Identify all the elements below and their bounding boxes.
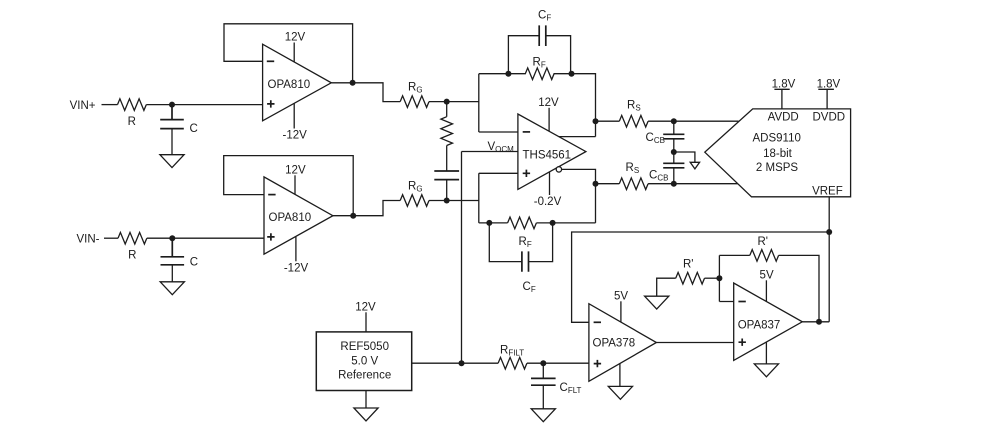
svg-text:RF: RF	[533, 57, 546, 70]
resistor RS (lower)	[619, 178, 648, 190]
svg-text:RS: RS	[626, 162, 640, 175]
resistor R (upper)	[118, 99, 147, 111]
svg-text:VIN+: VIN+	[70, 100, 96, 112]
supply stub -12V (upper OPA810)	[293, 103, 295, 128]
svg-text:5V: 5V	[614, 290, 628, 302]
wire feedback top rail	[719, 254, 749, 256]
node CF right (lower)	[550, 220, 556, 226]
IC ADS9110 body	[705, 109, 851, 197]
wire output step up to RG (lower)	[333, 201, 400, 216]
node output (lower OPA810)	[350, 213, 356, 219]
node output (upper OPA810)	[350, 80, 356, 86]
supply stub -12V (lower OPA810)	[295, 237, 297, 262]
node CCB middle	[671, 149, 677, 155]
supply stub 12V (lower OPA810)	[294, 175, 296, 194]
resistor RS (upper)	[619, 115, 648, 127]
pin minus (upper OPA810)	[267, 60, 274, 62]
wire feedback loop (upper OPA810)	[224, 24, 353, 83]
svg-text:CCB: CCB	[649, 170, 668, 183]
supply stub -0.2V (THS4561)	[549, 172, 551, 195]
wire CCB node to ADC AINP	[674, 120, 739, 122]
supply stub 12V (REF5050)	[365, 312, 367, 332]
wire CCB middle to ground	[674, 152, 695, 162]
ground (OPA378)	[608, 386, 632, 399]
svg-text:RG: RG	[408, 181, 423, 194]
node CCB bottom	[671, 181, 677, 187]
svg-text:R': R'	[683, 259, 694, 271]
svg-text:OPA810: OPA810	[269, 212, 312, 224]
wire OPA837 ground	[765, 342, 767, 364]
ground (lower input C)	[160, 282, 184, 295]
wire OPA378 output to OPA837 +	[656, 342, 733, 344]
pin minus (OPA378)	[594, 321, 601, 323]
svg-text:ADS9110: ADS9110	[753, 132, 801, 144]
resistor RT (vertical between RG nodes)	[441, 117, 453, 146]
svg-text:18-bit: 18-bit	[763, 148, 793, 160]
svg-text:RS: RS	[627, 100, 641, 113]
svg-text:-12V: -12V	[283, 130, 308, 142]
wire VIN- to R	[104, 237, 118, 239]
supply stub 5V (OPA837)	[765, 280, 767, 301]
capacitor CCB (lower)	[663, 152, 684, 184]
capacitor CF (upper) loop	[508, 25, 570, 73]
resistor R (lower)	[118, 232, 147, 244]
ground (CCB midpoint, small)	[690, 162, 699, 169]
svg-text:C: C	[190, 257, 198, 269]
svg-text:CFLT: CFLT	[560, 382, 582, 395]
svg-text:RF: RF	[519, 236, 532, 249]
supply stub DVDD	[818, 89, 834, 109]
wire bottom feedback rail	[479, 222, 596, 224]
capacitor C (upper)	[160, 105, 184, 155]
svg-text:1.8V: 1.8V	[772, 78, 796, 90]
resistor RF (upper)	[508, 68, 571, 80]
wire output plus (upper, from slope)	[559, 136, 596, 138]
capacitor CF (lower) loop	[489, 223, 552, 272]
pin minus (OPA837)	[738, 301, 745, 303]
resistor R prime (divider)	[676, 272, 705, 284]
svg-text:12V: 12V	[538, 97, 559, 109]
ground (REF5050)	[354, 408, 378, 421]
wire to RS (upper)	[596, 120, 620, 122]
node VIN+ RC junction	[169, 102, 175, 108]
wire RS to CCB node (upper)	[648, 120, 674, 122]
pin plus (OPA378)	[594, 360, 601, 367]
wire RG to summing node (upper)	[429, 101, 479, 103]
wire minus node vertical	[719, 255, 733, 301]
wire junction to termination resistor	[446, 102, 448, 117]
svg-text:OPA810: OPA810	[268, 79, 311, 91]
capacitor C (lower)	[161, 238, 185, 282]
wire resistor to capacitor (mid chain)	[446, 146, 448, 172]
op-amp U4 OPA378 body	[589, 304, 657, 382]
wire OPA837 output to VREF	[802, 321, 829, 323]
resistor RFILT	[498, 357, 527, 369]
node RF left (upper)	[505, 71, 511, 77]
wire REF5050 output to RFILT	[412, 362, 498, 364]
capacitor CFLT	[531, 363, 556, 409]
wire left R prime to ground	[657, 278, 676, 296]
wire R to lower OPA810 + input	[147, 237, 264, 239]
node VOCM tap	[459, 360, 465, 366]
wire RFILT to OPA378 +	[527, 362, 589, 364]
node OPA837 minus branch	[716, 275, 722, 281]
svg-text:R': R'	[758, 236, 769, 248]
wire feedback to output	[779, 255, 819, 321]
wire CCB node to ADC AINM	[674, 183, 738, 185]
wire R to OPA810 + input	[146, 104, 262, 106]
wire VOCM vertical down to reference	[461, 152, 463, 364]
wire non-inverting network left vertical	[479, 173, 518, 223]
svg-text:12V: 12V	[285, 164, 306, 176]
svg-text:5.0 V: 5.0 V	[351, 355, 378, 367]
svg-text:CF: CF	[538, 10, 551, 23]
svg-text:12V: 12V	[285, 32, 306, 44]
resistor RF (lower)	[508, 217, 537, 229]
supply stub AVDD	[774, 89, 789, 109]
svg-text:-12V: -12V	[284, 262, 309, 274]
op-amp U5 OPA837 body	[734, 283, 803, 360]
svg-text:VIN-: VIN-	[77, 234, 100, 246]
svg-text:1.8V: 1.8V	[817, 78, 841, 90]
svg-text:VREF: VREF	[812, 185, 843, 197]
pin minus (THS4561)	[523, 131, 530, 133]
svg-text:OPA378: OPA378	[593, 337, 636, 349]
supply stub 5V (OPA378)	[620, 301, 622, 322]
wire R prime to minus node	[705, 277, 720, 279]
op-amp U3 THS4561 body	[518, 114, 586, 189]
node VIN- RC junction	[169, 235, 175, 241]
node output plus branch	[593, 118, 599, 124]
ground (CFLT)	[531, 409, 555, 422]
ground (OPA837)	[754, 364, 778, 377]
resistor R prime (feedback)	[750, 250, 779, 262]
svg-text:CCB: CCB	[646, 132, 665, 145]
capacitor CCB (upper)	[663, 121, 684, 152]
node OPA837 output	[816, 319, 822, 325]
wire OPA378 ground	[619, 364, 621, 387]
svg-text:R: R	[128, 116, 136, 128]
op-amp U2 OPA810 (lower) body	[264, 177, 333, 254]
node CFLT junction	[540, 360, 546, 366]
supply stub 12V (THS4561)	[548, 108, 550, 132]
wire inverting input network left vertical	[479, 74, 518, 132]
node output minus branch	[593, 181, 599, 187]
svg-text:Reference: Reference	[338, 370, 391, 382]
svg-text:REF5050: REF5050	[340, 341, 389, 353]
svg-text:OPA837: OPA837	[738, 319, 781, 331]
capacitor CT (vertical between RG nodes)	[434, 171, 459, 201]
svg-text:THS4561: THS4561	[523, 150, 572, 162]
svg-text:-0.2V: -0.2V	[534, 196, 562, 208]
node CF left (lower)	[486, 220, 492, 226]
supply stub 12V (upper OPA810)	[293, 43, 295, 63]
node RF right (upper)	[569, 71, 575, 77]
wire VIN+ to R	[102, 104, 118, 106]
wire output step down to RG (upper)	[331, 83, 400, 102]
svg-text:5V: 5V	[760, 269, 774, 281]
node RG junction (upper)	[444, 99, 450, 105]
ground (upper input C)	[160, 155, 184, 168]
wire feedback loop (lower OPA810)	[224, 156, 354, 216]
svg-text:RG: RG	[408, 82, 423, 95]
pin minus (lower OPA810)	[268, 194, 275, 196]
pin inverted output bubble	[556, 167, 561, 172]
op-amp U1 OPA810 (upper) body	[263, 44, 332, 121]
svg-text:DVDD: DVDD	[813, 112, 846, 124]
resistor RG (lower)	[400, 195, 429, 207]
IC REF5050 body	[316, 332, 411, 391]
wire REF5050 ground	[365, 391, 367, 409]
wire output minus to vertical	[562, 169, 596, 223]
wire VREF feedback to OPA378	[572, 232, 830, 322]
resistor RG (upper)	[400, 96, 429, 108]
wire to RS (lower)	[596, 183, 620, 185]
pin plus (THS4561)	[523, 170, 530, 177]
svg-text:CF: CF	[523, 281, 536, 294]
svg-text:R: R	[128, 250, 136, 262]
svg-text:C: C	[190, 123, 198, 135]
node RG junction (lower)	[444, 198, 450, 204]
node CCB top	[671, 118, 677, 124]
svg-text:RFILT: RFILT	[500, 345, 524, 358]
svg-text:2 MSPS: 2 MSPS	[756, 162, 799, 174]
pin plus (OPA837)	[739, 339, 746, 346]
wire VREF pin down	[828, 197, 830, 322]
wire RF node to output vertical (upper)	[572, 74, 596, 137]
wire RG to summing node (lower)	[429, 200, 479, 202]
pin plus (upper OPA810)	[267, 100, 274, 107]
svg-text:12V: 12V	[355, 301, 376, 313]
svg-text:AVDD: AVDD	[768, 112, 799, 124]
wire VOCM horizontal	[462, 151, 518, 153]
ground (R prime divider)	[645, 296, 669, 309]
node VREF branch	[826, 229, 832, 235]
pin plus (lower OPA810)	[267, 233, 274, 240]
wire RS to CCB node (lower)	[648, 183, 674, 185]
